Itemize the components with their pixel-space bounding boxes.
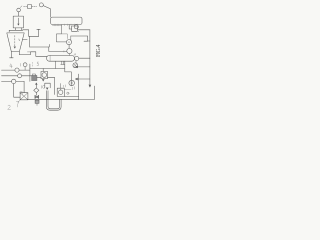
pump circle 1 bbox=[66, 40, 71, 45]
rung y41 stub bbox=[84, 40, 88, 42]
pipe from tank bottom to loop bbox=[64, 96, 78, 98]
mixer vessel 3 (lower horizontal) bbox=[47, 55, 75, 61]
wire: h pipe y44.9 bbox=[30, 46, 49, 48]
pipe bridge over bbox=[45, 83, 50, 88]
screw conveyor vessel 2 (long horizontal) bbox=[51, 17, 82, 24]
numeral 18 below bbox=[42, 85, 45, 88]
gauge box with circle bbox=[72, 26, 78, 31]
rung y79 with arrow bbox=[77, 78, 90, 80]
dosing square 5 bbox=[28, 5, 32, 9]
hopper side stub bbox=[22, 39, 27, 41]
steam pipe y75.8 bbox=[2, 75, 18, 77]
inline meter circle on y75.8 bbox=[18, 74, 22, 78]
node circle 6 (top-left small circle) bbox=[17, 8, 21, 12]
valve circle 8 bbox=[69, 80, 75, 86]
rotameter box with ball bbox=[41, 71, 48, 78]
rung y36 from pump1 bbox=[71, 36, 90, 41]
main bottom line bbox=[28, 98, 79, 100]
motor circle with cross bbox=[73, 63, 78, 68]
bottom-right loop bbox=[79, 74, 95, 100]
capped vent riser bbox=[37, 29, 40, 36]
wire pump2 down to mixer bbox=[68, 54, 70, 56]
inline meter circle on y70 bbox=[15, 68, 19, 72]
right bus vertical bbox=[89, 30, 91, 87]
screw flight ticks bbox=[52, 24, 61, 26]
wire rotameter right to drop bbox=[48, 77, 55, 94]
mixer drain to valve bbox=[65, 61, 72, 80]
cross pipe y68.5 bbox=[30, 68, 65, 70]
drive circle at mixer end bbox=[75, 56, 79, 60]
numeral 4 near hopper outlet bbox=[10, 64, 13, 68]
svg-text:FIG.4: FIG.4 bbox=[96, 45, 101, 57]
inline circle on y81.4 bbox=[12, 79, 16, 83]
blower box with X bbox=[20, 93, 28, 100]
numerals near loop top bbox=[64, 88, 71, 90]
feeder legs to hopper lid bbox=[15, 28, 17, 30]
wire above tank bbox=[60, 84, 62, 89]
dark pump block 12 bbox=[32, 75, 37, 80]
vessel outlet nozzle down bbox=[56, 25, 66, 42]
dashed wire square to circle bbox=[32, 6, 37, 8]
numeral 9 near blower bbox=[20, 91, 23, 95]
bus arrowhead bottom bbox=[89, 85, 91, 87]
mixer leg to cross pipe bbox=[55, 61, 57, 68]
wire gauge to right bus bbox=[78, 29, 90, 31]
tiny circle right of tank bbox=[67, 92, 69, 94]
numeral ticks center bbox=[31, 62, 33, 66]
wire: h pipe into pump circle 2 bbox=[49, 50, 67, 52]
conveyor feed pipe from hopper outlet bbox=[19, 52, 47, 57]
numeral 7 squiggle bbox=[16, 101, 19, 107]
drop into blower top bbox=[23, 81, 25, 92]
arrow below rotameter bbox=[42, 79, 44, 81]
wire: v pipe x29.7 bbox=[29, 36, 31, 47]
control valve on main line bbox=[35, 95, 39, 98]
rung y66.9 with arrow bbox=[77, 66, 90, 68]
water pipe y70 bbox=[2, 69, 15, 71]
hopper outlet right leg bbox=[18, 52, 20, 55]
pump circle 2 bbox=[67, 48, 72, 53]
numeral tick inside hopper bbox=[18, 39, 20, 41]
node circle 4 bbox=[39, 3, 43, 7]
leader tick near circle 6 bbox=[20, 6, 22, 8]
numeral 2 squiggle bbox=[8, 105, 11, 110]
wire: drop to y51.3 bbox=[48, 44, 51, 51]
wire down into rotameter top bbox=[42, 69, 44, 72]
hopper lid line bbox=[9, 29, 23, 31]
tank box with circle bbox=[57, 88, 64, 96]
wire circle4 to conveyor inlet bbox=[43, 6, 50, 17]
long drop line x29.9 bbox=[29, 64, 31, 81]
wire pump to rotameter bbox=[37, 76, 41, 78]
mixer legs bbox=[61, 61, 65, 64]
wire: h pipe y36 bbox=[30, 35, 39, 37]
arrow into trap leg bbox=[46, 88, 48, 90]
dashed arrow inside hopper bbox=[14, 36, 16, 48]
hopper outlet left leg with foot bbox=[10, 52, 14, 58]
orifice circle on drop bbox=[34, 88, 39, 93]
rung y58 drive to bus bbox=[79, 57, 90, 59]
feeder box 7 with down arrow bbox=[13, 16, 23, 28]
dashed wire to dosing square bbox=[24, 6, 28, 8]
numeral 10 bbox=[19, 63, 21, 66]
leader from blower corner bbox=[18, 100, 20, 102]
third pipe y81.4 bbox=[2, 80, 12, 82]
wire pump down to orifice bbox=[35, 83, 37, 88]
wire vessel to gauge box bbox=[69, 25, 72, 29]
hopper 1 (trapezoid funnel) bbox=[7, 33, 24, 52]
U-trap seal pot bbox=[46, 91, 61, 111]
wire: riser from lid pipe bbox=[29, 30, 30, 37]
wire pump1 to pump2 bbox=[68, 45, 70, 49]
wire lid to pipe right bbox=[23, 29, 29, 31]
wire circle6 to feeder box bbox=[18, 12, 20, 16]
stem under circle to blower left bbox=[14, 84, 20, 98]
numerals near tank bbox=[63, 85, 65, 88]
